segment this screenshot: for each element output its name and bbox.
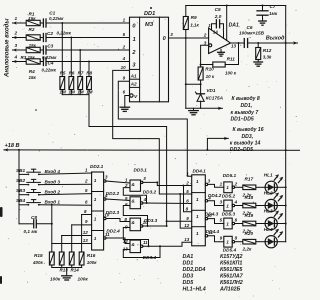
- svg-text:2: 2: [14, 30, 18, 35]
- svg-text:1: 1: [94, 236, 97, 241]
- svg-text:1: 1: [94, 217, 97, 222]
- LED HL2 emission arrows: [274, 194, 278, 199]
- svg-text:Аналоговые входы: Аналоговые входы: [5, 18, 11, 78]
- svg-text:1: 1: [226, 203, 229, 208]
- svg-text:11: 11: [143, 240, 148, 245]
- svg-text:DA1: DA1: [229, 22, 239, 28]
- svg-text:DD3.1: DD3.1: [134, 168, 148, 173]
- svg-text:SB4: SB4: [16, 198, 26, 203]
- wire DD2 lower input row 3: [81, 215, 83, 253]
- svg-text:DD2.3: DD2.3: [106, 210, 120, 215]
- svg-text:DD4.1: DD4.1: [193, 168, 207, 173]
- svg-text:15к: 15к: [29, 43, 37, 48]
- svg-text:13: 13: [184, 237, 190, 242]
- scan smudges: [0, 207, 3, 217]
- svg-text:C5: C5: [215, 7, 221, 12]
- LED HL3 emission arrows: [274, 212, 278, 217]
- svg-text:DD2.4: DD2.4: [106, 229, 120, 234]
- svg-text:2,0: 2,0: [214, 14, 222, 19]
- svg-text:C3: C3: [47, 44, 53, 49]
- svg-text:SB3: SB3: [16, 188, 26, 193]
- wire HL3 to supply column: [277, 223, 285, 225]
- svg-text:15к: 15к: [28, 16, 36, 21]
- resistor bank R15: [69, 252, 74, 265]
- svg-text:Вход 1: Вход 1: [45, 200, 61, 205]
- svg-text:14: 14: [213, 29, 219, 34]
- svg-text:DD5.2: DD5.2: [222, 194, 236, 199]
- wire DA1 pin3 input: [201, 45, 209, 67]
- svg-text:0,22мк: 0,22мк: [42, 55, 57, 60]
- wire DD2 lower input row 1: [61, 236, 63, 253]
- resistor R8 1М: [88, 62, 90, 77]
- IC DD3 К561ЛА7 gates: [130, 180, 141, 191]
- svg-text:R11: R11: [227, 56, 236, 61]
- svg-text:C4: C4: [48, 61, 54, 66]
- wire DD4 pin8 feed: [184, 186, 192, 212]
- capacitor C4 0,22мк: [40, 61, 42, 63]
- svg-text:1: 1: [15, 16, 18, 21]
- svg-text:АЛ102Б: АЛ102Б: [219, 287, 241, 293]
- svg-text:100мк×15В: 100мк×15В: [239, 31, 265, 36]
- ground R12: [254, 61, 263, 63]
- svg-text:1: 1: [196, 214, 199, 219]
- svg-text:C6: C6: [247, 25, 253, 30]
- svg-text:1мк: 1мк: [269, 11, 278, 16]
- wire DA1 supply from rail: [226, 6, 228, 41]
- svg-text:DD1–DD5: DD1–DD5: [231, 117, 254, 123]
- wire SB4 to DD2: [39, 204, 92, 207]
- wire SB1 to DD2: [39, 173, 92, 174]
- svg-text:DD5: DD5: [183, 280, 195, 286]
- wire DD1 А2 (pin9) long net: [118, 81, 191, 176]
- svg-text:1М: 1М: [69, 90, 76, 95]
- wire DD3.4 pin 13 loop: [123, 246, 160, 257]
- wire switch bus vertical: [18, 150, 20, 224]
- svg-text:100 к: 100 к: [225, 71, 237, 76]
- svg-text:100к: 100к: [78, 277, 89, 282]
- wire latch loop DD3.3->DD3.2: [123, 206, 147, 227]
- svg-text:SB1: SB1: [16, 168, 26, 173]
- svg-text:R5: R5: [60, 70, 66, 75]
- resistor R1 15к: [26, 20, 40, 25]
- svg-text:100к: 100к: [50, 277, 61, 282]
- resistor R5 1М: [61, 23, 63, 77]
- svg-text:1М: 1М: [86, 90, 93, 95]
- wire DD4.4 out to DD5.4: [208, 236, 224, 242]
- resistor R19 2,2к: [235, 223, 243, 225]
- wire DD1 А1 (pin10) long net: [113, 70, 192, 194]
- ground net symbol: [193, 108, 195, 110]
- svg-text:К561ЛА7: К561ЛА7: [220, 274, 244, 280]
- capacitor C7 1мк: [262, 6, 264, 11]
- wire DD2.1 out to DD3.1: [106, 181, 130, 183]
- wire DD4.1 out to DD5.1: [208, 184, 224, 187]
- wire DD3.1 out to DD4.1: [143, 182, 192, 185]
- svg-text:DD3,: DD3,: [242, 134, 254, 140]
- svg-text:HL2: HL2: [264, 191, 273, 196]
- wire DD4 pin12 feed: [180, 194, 192, 228]
- wire SB3 to DD2: [39, 194, 92, 195]
- svg-text:12: 12: [184, 223, 190, 228]
- svg-text:0,22мк: 0,22мк: [57, 31, 72, 36]
- svg-text:3: 3: [15, 43, 18, 48]
- svg-text:15к: 15к: [29, 75, 37, 80]
- svg-text:R2: R2: [29, 27, 35, 32]
- svg-text:C2: C2: [47, 31, 53, 36]
- svg-text:2: 2: [185, 180, 189, 185]
- svg-text:К выводу 16: К выводу 16: [233, 127, 264, 133]
- svg-text:100к: 100к: [87, 260, 98, 265]
- wire supply tap with arrow to DD text: [207, 138, 224, 150]
- svg-text:R8: R8: [86, 70, 92, 75]
- svg-text:0,22мк: 0,22мк: [42, 67, 57, 72]
- ground C7: [259, 20, 267, 22]
- svg-text:К561КП1: К561КП1: [220, 261, 242, 267]
- svg-text:1М: 1М: [77, 90, 84, 95]
- svg-text:3: 3: [204, 40, 207, 45]
- svg-text:10: 10: [121, 65, 127, 70]
- svg-text:DD5.3: DD5.3: [222, 212, 236, 217]
- inverter DD5.1: [224, 182, 232, 193]
- inverter DD5.4: [224, 236, 232, 247]
- resistor R6 1М: [70, 38, 72, 77]
- wire DD2.4 out to DD3.4: [106, 238, 130, 244]
- svg-text:1,1к: 1,1к: [190, 23, 199, 28]
- wire bank bottoms bus: [51, 265, 53, 268]
- wire rows to DD2 pins 13,12,9,8: [52, 243, 92, 245]
- svg-text:R20: R20: [245, 231, 254, 236]
- capacitor C2 0,22мк: [40, 37, 42, 39]
- resistor R20 2,2к: [235, 241, 243, 243]
- LED HL4 АЛ102Б: [265, 236, 277, 248]
- wire zener reference node: [185, 38, 187, 108]
- svg-text:2: 2: [84, 178, 88, 183]
- svg-text:R9: R9: [191, 15, 197, 20]
- svg-text:HL3: HL3: [264, 209, 273, 214]
- wire DD1 pin6 to ground: [125, 96, 130, 108]
- svg-text:DD1,: DD1,: [241, 103, 253, 109]
- wire +supply top rail: [186, 5, 286, 7]
- ground DA1 minus pin (small): [220, 49, 222, 52]
- svg-text:К561ЛН2: К561ЛН2: [220, 280, 243, 286]
- wire HL2 to supply column: [277, 205, 285, 207]
- svg-text:2: 2: [234, 181, 238, 186]
- svg-text:1: 1: [133, 37, 136, 43]
- svg-text:Выход: Выход: [266, 35, 285, 41]
- svg-text:R14: R14: [71, 267, 80, 272]
- resistor R9 1,1к: [185, 6, 187, 17]
- svg-text:DD5.4: DD5.4: [223, 248, 237, 253]
- wire output to Выход arrow: [248, 42, 294, 44]
- wire DD2.2 out to DD3.2: [106, 199, 130, 201]
- wire +18V rail: [3, 149, 5, 151]
- svg-text:Вход 3: Вход 3: [45, 179, 61, 184]
- LED HL2 АЛ102Б: [265, 199, 277, 211]
- svg-text:DA1: DA1: [183, 254, 194, 260]
- svg-text:R17: R17: [245, 177, 254, 182]
- svg-text:2,2к: 2,2к: [242, 247, 253, 252]
- resistor R17 2,2к: [235, 186, 243, 188]
- resistor R12 3,3к: [257, 43, 259, 48]
- svg-text:+18 В: +18 В: [5, 143, 20, 149]
- wire input 2 to DD1: [46, 37, 130, 39]
- svg-text:R10: R10: [205, 67, 214, 72]
- op-amp DA1 К157УД2: [209, 28, 231, 54]
- svg-text:к выводу 7: к выводу 7: [231, 110, 260, 116]
- wire ground net with arrow to DD supply text: [186, 107, 219, 109]
- zener diode VD1 КС175А: [200, 84, 202, 93]
- resistor R18 2,2к: [235, 205, 243, 207]
- svg-text:DD2.1: DD2.1: [90, 164, 104, 169]
- svg-text:R19: R19: [245, 213, 254, 218]
- wire DD2.3 out to DD3.3: [106, 219, 130, 222]
- wire HL4 to supply column: [277, 241, 285, 243]
- svg-text:DD3.2: DD3.2: [143, 190, 157, 195]
- svg-text:4: 4: [207, 195, 211, 200]
- svg-text:R3 15к: R3 15к: [21, 55, 36, 60]
- svg-text:10 к: 10 к: [206, 74, 215, 79]
- svg-text:SB2: SB2: [16, 178, 26, 183]
- wire SB4 net to R bank: [51, 205, 53, 252]
- svg-text:R4: R4: [29, 69, 35, 74]
- wire R5-R8 common bottom bus: [62, 94, 89, 96]
- svg-text:1М: 1М: [60, 90, 67, 95]
- svg-text:R6: R6: [69, 70, 75, 75]
- wire latch loop DD3.2->DD3.1: [123, 188, 146, 203]
- svg-text:4: 4: [122, 56, 126, 61]
- svg-text:Вход 2: Вход 2: [45, 190, 61, 195]
- wire DD4.3 out to DD5.3: [208, 219, 224, 224]
- wire right-edge supply vertical: [285, 6, 287, 242]
- LED HL1 emission arrows: [274, 175, 278, 180]
- svg-text:А2: А2: [130, 81, 137, 86]
- LED HL1 АЛ102Б: [265, 181, 277, 193]
- LED HL3 АЛ102Б: [265, 217, 277, 229]
- svg-text:1: 1: [226, 185, 229, 190]
- svg-text:R13: R13: [60, 267, 69, 272]
- wire DD3.3 out to DD4.3: [143, 225, 167, 227]
- svg-text:400к: 400к: [32, 260, 44, 265]
- svg-text:HL1: HL1: [264, 173, 273, 178]
- svg-text:1: 1: [94, 178, 97, 183]
- op-amp inverting input circle: [209, 44, 212, 47]
- svg-text:1: 1: [226, 240, 229, 245]
- wire DD3.2 out to DD4.2: [143, 202, 192, 205]
- svg-text:HL4: HL4: [264, 227, 273, 232]
- LED HL4 emission arrows: [274, 230, 278, 235]
- scan noise speckles: [96, 45, 99, 48]
- wire gnd bus down-right to lower area: [89, 95, 167, 226]
- DD2 output circles: [104, 180, 106, 182]
- wire input 4 to DD1: [46, 61, 130, 63]
- svg-text:К выводу 8: К выводу 8: [232, 96, 260, 102]
- svg-text:DD5.1: DD5.1: [223, 173, 237, 178]
- svg-text:0,1 мк: 0,1 мк: [24, 229, 38, 234]
- svg-text:C7: C7: [270, 4, 276, 9]
- svg-text:МЗ: МЗ: [145, 22, 154, 28]
- svg-text:R7: R7: [78, 70, 84, 75]
- svg-text:R16: R16: [87, 253, 96, 258]
- svg-text:13: 13: [231, 44, 237, 49]
- wire DD3.4 out to DD4.4: [143, 242, 192, 246]
- inverter DD5.2: [224, 200, 232, 211]
- svg-text:10: 10: [207, 213, 213, 218]
- capacitor C6 100мк x 15В: [243, 39, 245, 48]
- wire SB2 to DD2: [39, 183, 92, 185]
- resistor R2 15к: [26, 35, 40, 40]
- resistor R11 100к (feedback): [201, 64, 213, 66]
- svg-text:DD2,DD4: DD2,DD4: [183, 267, 206, 273]
- resistor R10 10к: [198, 67, 203, 80]
- svg-text:R18: R18: [245, 195, 254, 200]
- ground DD1 pin 6: [120, 106, 129, 108]
- capacitor C1 0,22мк: [40, 22, 42, 24]
- resistor R4 15к: [26, 59, 40, 64]
- svg-text:R15: R15: [34, 253, 43, 258]
- DD1 left column dividers: [130, 68, 140, 70]
- svg-text:HL1–HL4: HL1–HL4: [183, 287, 206, 293]
- svg-text:4: 4: [234, 200, 238, 205]
- svg-text:3,3к: 3,3к: [263, 55, 272, 60]
- svg-text:13: 13: [83, 238, 89, 243]
- DD1 pin V inversion circle: [130, 94, 133, 97]
- svg-text:1: 1: [196, 179, 199, 184]
- wire supply stub to right edge: [286, 149, 300, 151]
- svg-text:R12: R12: [263, 48, 272, 53]
- svg-text:DD1: DD1: [144, 11, 155, 17]
- svg-text:4: 4: [14, 54, 18, 59]
- wire input 1 to DD1: [46, 22, 130, 24]
- DD4 output circles: [205, 183, 207, 185]
- svg-text:DD3: DD3: [183, 274, 194, 280]
- inverter DD5.3: [224, 218, 232, 229]
- svg-text:2: 2: [203, 32, 207, 37]
- resistor bank R16: [79, 252, 84, 265]
- svg-text:DD2.2: DD2.2: [106, 191, 120, 196]
- svg-text:1: 1: [196, 197, 199, 202]
- svg-text:0,22мк: 0,22мк: [49, 16, 64, 21]
- svg-text:А1: А1: [130, 73, 137, 78]
- wire DD2 lower input row 2: [71, 225, 73, 252]
- ground R bank: [66, 268, 68, 276]
- wire latch loop DD3.4->DD3.3: [123, 228, 148, 247]
- resistor bank R13: [49, 252, 54, 265]
- wire DD4.2 out to DD5.2: [208, 201, 224, 206]
- capacitor C3 0,22мк: [40, 49, 42, 51]
- svg-text:К561ЛЕ5: К561ЛЕ5: [220, 267, 243, 273]
- svg-text:К157УД2: К157УД2: [220, 254, 242, 260]
- svg-text:1: 1: [196, 231, 199, 236]
- wire input 3 to DD1: [46, 49, 130, 51]
- svg-text:КС175А: КС175А: [206, 96, 224, 101]
- svg-text:1: 1: [226, 221, 229, 226]
- svg-text:к выводу 14: к выводу 14: [230, 141, 261, 147]
- svg-text:1: 1: [94, 197, 97, 202]
- svg-text:2: 2: [122, 44, 126, 49]
- svg-text:VD1: VD1: [206, 88, 216, 93]
- svg-text:11: 11: [208, 230, 213, 235]
- resistor bank R14: [59, 252, 64, 265]
- resistor R3 15к: [26, 47, 40, 52]
- svg-text:12: 12: [83, 230, 89, 235]
- resistor R7 1М: [79, 50, 81, 77]
- svg-text:DD1: DD1: [183, 261, 194, 267]
- wire HL1 to supply column: [277, 186, 285, 188]
- svg-text:C1: C1: [49, 11, 55, 16]
